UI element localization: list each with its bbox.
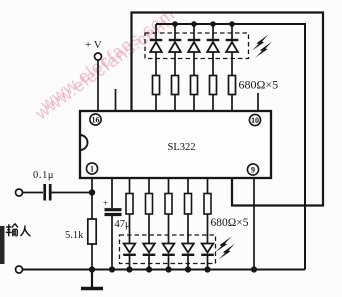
svg-text:+: + — [103, 199, 108, 209]
resistor bottom R11 — [204, 194, 211, 215]
pin 10 label — [249, 114, 260, 125]
svg-text:680Ω×5: 680Ω×5 — [239, 78, 279, 92]
svg-text:10: 10 — [251, 116, 259, 125]
svg-text:16: 16 — [92, 115, 100, 124]
svg-text:47μ: 47μ — [115, 219, 132, 230]
watermark — [31, 3, 179, 123]
LED VD7 — [143, 244, 156, 270]
node A junction — [89, 189, 95, 195]
pin 1 label — [86, 163, 97, 174]
svg-text:1: 1 — [90, 164, 94, 173]
resistor top R2 — [172, 76, 179, 95]
wires top resistors to IC — [156, 95, 232, 112]
LED VD10 — [201, 244, 214, 270]
LED VD5 — [226, 40, 239, 52]
top LED column wires — [156, 24, 232, 76]
resistor top R5 — [229, 76, 236, 95]
wires bottom resistors to LEDs — [130, 214, 208, 244]
svg-text:0.1μ: 0.1μ — [33, 170, 54, 181]
ground — [81, 270, 103, 289]
LED VD9 — [182, 244, 195, 270]
LED VD4 — [207, 40, 220, 52]
input terminal lower — [16, 266, 23, 273]
resistor top R1 — [153, 76, 160, 95]
wire +V to pin 16 — [97, 60, 99, 111]
resistor top R4 — [210, 76, 217, 95]
LED VD6 — [123, 244, 136, 270]
op-amp U1 SL322 IC body — [80, 111, 271, 178]
LED VD3 — [188, 40, 201, 52]
bottom LED group dashed box — [120, 235, 216, 264]
wires bottom resistor columns from IC — [130, 178, 208, 194]
wire outer feedback loop — [132, 13, 324, 206]
wire pin9 column to rail — [253, 178, 255, 270]
svg-text:9: 9 — [251, 165, 255, 174]
+V supply terminal — [85, 39, 102, 60]
bottom light emission arrows — [215, 237, 235, 260]
wire bottom ground rail — [22, 268, 305, 270]
LED VD1 — [150, 40, 163, 52]
pin stub 15 — [115, 89, 117, 111]
svg-text:680Ω×5: 680Ω×5 — [211, 217, 249, 229]
pin 16 label — [90, 114, 101, 125]
resistor bottom R9 — [165, 194, 172, 215]
node junction dots bottom rail — [89, 266, 257, 272]
wire pin1 column — [91, 178, 93, 270]
capacitor C2 47u — [103, 178, 131, 270]
resistor bottom R8 — [146, 194, 153, 215]
label input (Chinese) — [6, 224, 31, 237]
top LED group dashed box — [145, 33, 249, 59]
wire input to C1 — [22, 192, 43, 194]
resistor bottom R10 — [185, 194, 192, 215]
pin 9 label — [247, 164, 258, 175]
resistor top R3 — [191, 76, 198, 95]
resistor bottom R7 — [126, 194, 133, 215]
wire LED common top rail — [156, 24, 305, 270]
LED VD8 — [162, 244, 175, 270]
top light emission arrows — [252, 35, 272, 58]
svg-text:SL322: SL322 — [168, 142, 196, 153]
capacitor C1 0.1u — [33, 170, 54, 201]
scan artifact bar — [0, 226, 5, 264]
svg-text:5.1k: 5.1k — [65, 230, 84, 241]
wire C1 to node A — [52, 192, 93, 194]
resistor R6 5.1k — [65, 219, 96, 244]
node junction dots top rail — [172, 21, 235, 27]
svg-text:+ V: + V — [85, 39, 102, 51]
pin stub 11 — [257, 93, 259, 111]
input terminal upper — [16, 189, 23, 196]
LED VD2 — [169, 40, 182, 52]
